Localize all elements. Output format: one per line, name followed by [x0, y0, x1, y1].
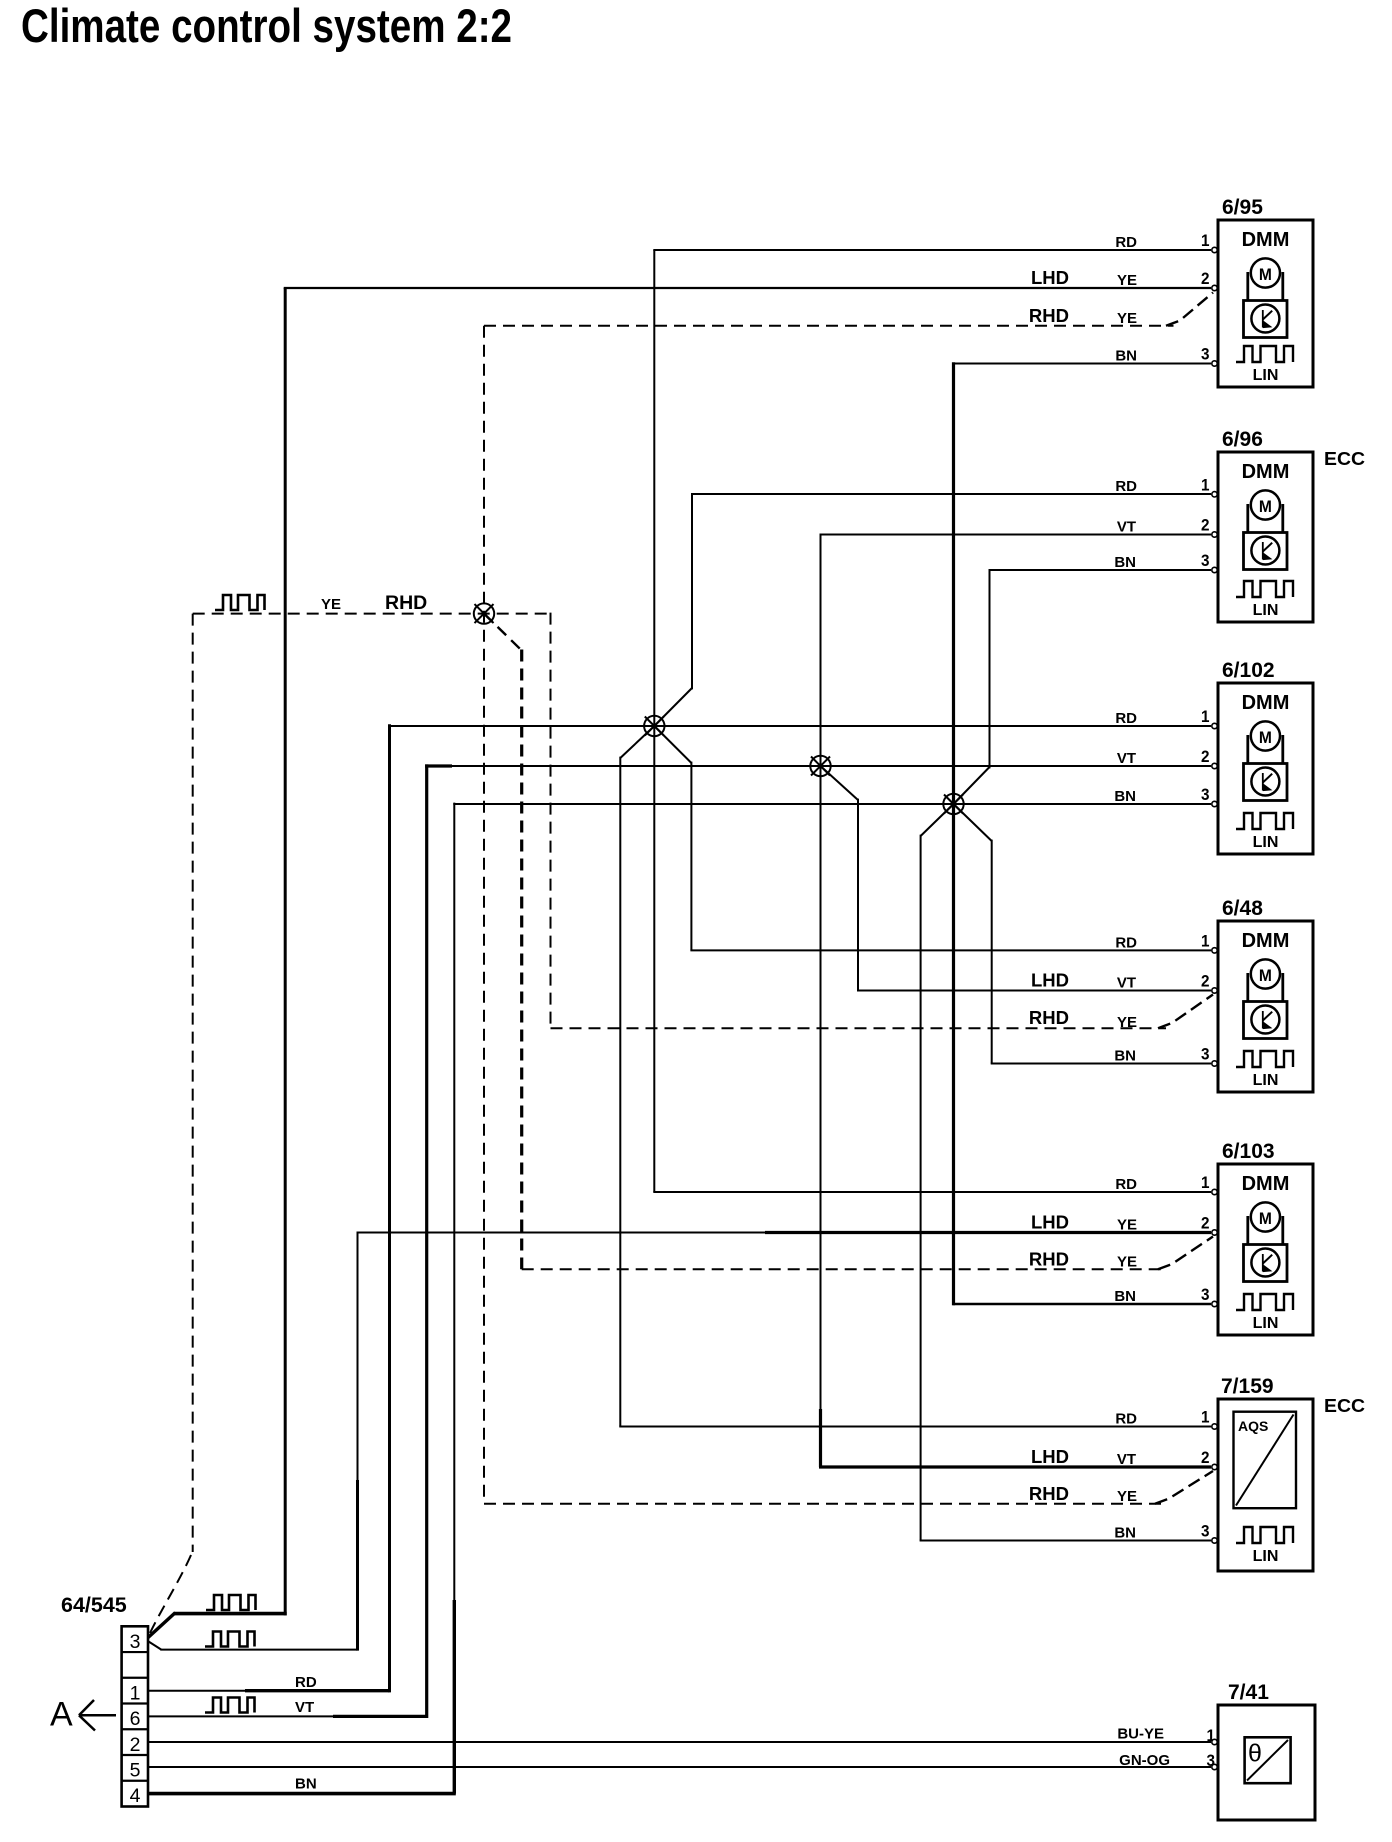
svg-text:LIN: LIN: [1253, 602, 1279, 619]
svg-text:4: 4: [130, 1785, 141, 1807]
svg-text:1: 1: [1201, 707, 1210, 726]
svg-text:1: 1: [1201, 931, 1210, 950]
6/103 motor symbol legs: [1248, 1216, 1283, 1246]
svg-text:7/159: 7/159: [1221, 1375, 1274, 1398]
svg-text:θ: θ: [1248, 1740, 1262, 1768]
wire BN vertical to 7/159: [920, 835, 922, 1541]
6/96 position sensor K circle: [1251, 537, 1279, 565]
svg-text:YE: YE: [1117, 1253, 1137, 1270]
svg-text:GN-OG: GN-OG: [1119, 1752, 1170, 1769]
wire RD vertical to 6/48: [690, 762, 692, 951]
wire BN branch diagonal to 6/96: [954, 767, 990, 804]
svg-text:YE: YE: [1117, 310, 1137, 327]
svg-text:1: 1: [130, 1682, 141, 1704]
7/159 LIN pulse symbol: [1236, 1527, 1293, 1543]
wire BN horizontal to 6/95 pin3: [953, 363, 1212, 365]
6/103 LIN pulse symbol: [1236, 1294, 1293, 1310]
svg-text:1: 1: [1201, 1408, 1210, 1427]
svg-text:BN: BN: [295, 1776, 317, 1793]
7/41 temperature sensor symbol: [1245, 1737, 1291, 1783]
svg-text:1: 1: [1201, 475, 1210, 494]
wire YE bold vertical riser x285: [284, 288, 287, 1615]
6/48 pin 3 terminal: [1212, 1061, 1217, 1066]
wire VT LHD horizontal to 6/48 pin2: [857, 990, 1211, 992]
6/48 pin 2 terminal: [1212, 988, 1217, 993]
svg-text:BN: BN: [1114, 554, 1136, 571]
wire VT 64/545 pin6 horizontal thin: [148, 1715, 334, 1717]
wire RD branch diagonal to 6/96: [654, 688, 692, 726]
wire VT vertical bold to 7/159: [819, 1409, 822, 1467]
svg-text:RD: RD: [1115, 710, 1137, 727]
svg-text:64/545: 64/545: [61, 1593, 127, 1617]
svg-text:M: M: [1259, 497, 1272, 516]
svg-text:LIN: LIN: [1253, 1548, 1279, 1565]
svg-text:M: M: [1259, 1209, 1272, 1228]
arrow A: [79, 1700, 116, 1731]
wire RD vertical bus x654: [653, 250, 655, 1192]
wire RD 64/545 pin1 horizontal bold: [245, 1689, 390, 1692]
svg-text:6/102: 6/102: [1222, 659, 1275, 682]
svg-text:2: 2: [1201, 269, 1210, 288]
7/159 pin 3 terminal: [1212, 1538, 1217, 1543]
6/95 position sensor K circle: [1251, 305, 1279, 333]
wire YE vertical riser x357 bold: [356, 1480, 359, 1651]
6/96 pin 1 terminal: [1212, 492, 1217, 497]
6/102 motor M circle: [1251, 721, 1280, 750]
svg-text:RD: RD: [1115, 934, 1137, 951]
svg-text:1: 1: [1201, 231, 1210, 250]
6/103 motor M circle: [1251, 1202, 1280, 1231]
wire RHD dashed horizontal to 6/95: [484, 325, 1174, 327]
svg-text:BN: BN: [1115, 348, 1137, 365]
wire RHD dashed branch diagonal: [484, 614, 522, 651]
6/103 pin 3 terminal: [1212, 1301, 1217, 1306]
6/48 pin 1 terminal: [1212, 948, 1217, 953]
6/96 motor M circle: [1251, 490, 1280, 519]
junction BN: [943, 794, 963, 814]
svg-text:DMM: DMM: [1242, 461, 1290, 483]
7/159 AQS sensor symbol: [1234, 1412, 1297, 1509]
svg-text:YE: YE: [1117, 1014, 1137, 1031]
wire GN-OG 64/545 pin5 to 7/41 pin3: [148, 1766, 1211, 1768]
wire VT branch diagonal to 6/48: [821, 766, 859, 800]
7/159 pin 1 terminal: [1212, 1424, 1217, 1429]
pulse symbol on VT wire: [205, 1698, 255, 1713]
svg-text:M: M: [1259, 728, 1272, 747]
junction RHD YE dashed: [474, 603, 494, 623]
svg-text:Climate control system 2:2: Climate control system 2:2: [21, 0, 512, 52]
6/95 LIN pulse symbol: [1236, 346, 1293, 362]
6/102 motor symbol legs: [1248, 735, 1283, 765]
wire YE thin stub from 64/545 pin3: [147, 1641, 161, 1650]
junction VT: [810, 756, 830, 776]
wire BN horizontal to 6/96 pin3: [989, 569, 1212, 571]
6/103 pin 1 terminal: [1212, 1189, 1217, 1194]
wire RD vertical riser x390: [388, 724, 391, 1692]
6/48 motor M circle: [1251, 959, 1280, 988]
svg-text:VT: VT: [1117, 519, 1136, 536]
wire RD horizontal to 6/96 pin1: [691, 493, 1211, 495]
svg-text:RHD: RHD: [1029, 305, 1069, 326]
6/96 motor symbol legs: [1248, 504, 1283, 534]
svg-text:ECC: ECC: [1324, 1396, 1365, 1416]
svg-text:LIN: LIN: [1253, 834, 1279, 851]
6/102 pin 1 terminal: [1212, 723, 1217, 728]
svg-text:LIN: LIN: [1253, 1072, 1279, 1089]
svg-text:3: 3: [1201, 1285, 1210, 1304]
connector 64/545 cell divider 3: [122, 1702, 148, 1704]
svg-text:BU-YE: BU-YE: [1117, 1726, 1164, 1743]
svg-text:YE: YE: [321, 596, 341, 613]
connector 64/545 body: [122, 1626, 148, 1806]
wire YE LHD horizontal bold to 6/103 pin2: [765, 1231, 1211, 1234]
wire YE bold stub from 64/545 pin3: [147, 1613, 175, 1639]
6/95 motor M circle: [1251, 258, 1280, 287]
component box 7/159: [1218, 1399, 1313, 1571]
pulse symbol on YE bold wire: [206, 1595, 256, 1610]
svg-text:RD: RD: [1115, 1411, 1137, 1428]
6/48 position sensor K circle: [1251, 1006, 1279, 1034]
svg-text:6/48: 6/48: [1222, 897, 1263, 920]
wire RD horizontal to 6/95 pin1: [653, 249, 1211, 251]
svg-text:2: 2: [1201, 516, 1210, 535]
svg-text:RHD: RHD: [1029, 1483, 1069, 1504]
wire RD horizontal to 6/102 pin1: [388, 725, 1211, 727]
svg-text:RD: RD: [1115, 1176, 1137, 1193]
svg-text:DMM: DMM: [1242, 229, 1290, 251]
7/159 pin 2 terminal: [1212, 1464, 1217, 1469]
wire RHD dashed horizontal to 6/103: [522, 1268, 1166, 1270]
svg-text:LHD: LHD: [1031, 267, 1069, 288]
svg-text:DMM: DMM: [1242, 930, 1290, 952]
svg-text:6/95: 6/95: [1222, 196, 1263, 219]
component box 6/103: [1218, 1164, 1313, 1335]
svg-text:RD: RD: [295, 1674, 317, 1691]
svg-text:2: 2: [1201, 972, 1210, 991]
svg-text:3: 3: [1201, 345, 1210, 364]
wire BU-YE 64/545 pin2 to 7/41 pin1: [148, 1741, 1211, 1743]
connector 64/545 cell divider 4: [122, 1728, 148, 1730]
wire BN horizontal to 6/48 pin3: [991, 1063, 1211, 1065]
wire RHD dashed vertical x193: [192, 614, 194, 1552]
6/96 LIN pulse symbol: [1236, 581, 1293, 597]
wire VT 64/545 pin6 horizontal bold: [333, 1715, 427, 1718]
wire BN branch diagonal to 6/48: [954, 804, 992, 841]
svg-text:5: 5: [130, 1760, 141, 1782]
6/96 pin 2 terminal: [1212, 532, 1217, 537]
svg-text:LHD: LHD: [1031, 1212, 1069, 1233]
svg-text:3: 3: [1201, 551, 1210, 570]
wire VT vertical to 6/48: [857, 799, 859, 991]
wire RD horizontal to 6/48 pin1: [690, 949, 1211, 951]
svg-text:RD: RD: [1115, 234, 1137, 251]
6/102 pin 2 terminal: [1212, 763, 1217, 768]
wire RD 64/545 pin1 horizontal thin: [148, 1690, 246, 1692]
component box 6/48: [1218, 921, 1313, 1092]
6/102 pin 3 terminal: [1212, 801, 1217, 806]
svg-text:M: M: [1259, 966, 1272, 985]
svg-text:DMM: DMM: [1242, 692, 1290, 714]
component box 7/41: [1218, 1705, 1315, 1820]
wire BN vertical riser x454 thin: [453, 803, 455, 1601]
svg-text:3: 3: [1201, 785, 1210, 804]
6/102 damper position box: [1244, 764, 1288, 801]
wire BN 64/545 pin4 horizontal bold: [148, 1792, 456, 1796]
wire RD vertical to 6/96: [691, 494, 693, 689]
wire RHD dashed horizontal to 7/159: [484, 1503, 1163, 1505]
svg-text:3: 3: [1201, 1522, 1210, 1541]
wire VT vertical riser x427: [425, 764, 428, 1718]
wire YE thin horizontal: [160, 1649, 357, 1651]
6/48 damper position box: [1244, 1002, 1288, 1039]
wire RHD dashed stub from 64/545 pin3: [150, 1551, 193, 1633]
6/102 LIN pulse symbol: [1236, 813, 1293, 829]
svg-text:VT: VT: [1117, 1451, 1136, 1468]
7/41 pin 3 terminal: [1212, 1764, 1217, 1769]
wire RHD dashed vertical x550: [550, 613, 552, 1029]
6/103 damper position box: [1244, 1245, 1288, 1282]
wire BN branch diagonal to 7/159: [921, 804, 954, 836]
svg-text:RHD: RHD: [385, 592, 427, 614]
svg-text:2: 2: [1201, 1448, 1210, 1467]
wire RHD dashed vertical x484: [483, 326, 485, 1504]
junction RD: [644, 716, 664, 736]
wire YE LHD horizontal to 6/95 pin2: [284, 287, 1211, 289]
wire BN horizontal to 7/159 pin3: [920, 1540, 1211, 1542]
wire VT horizontal to 6/102 pin2: [451, 765, 1211, 767]
6/96 pin 3 terminal: [1212, 567, 1217, 572]
svg-text:M: M: [1259, 265, 1272, 284]
wire YE bold horizontal: [174, 1612, 286, 1616]
svg-text:3: 3: [130, 1631, 141, 1653]
connector 64/545 cell divider 1: [122, 1651, 148, 1653]
wire VT LHD horizontal to 7/159 pin2: [819, 1465, 1211, 1468]
svg-text:BN: BN: [1114, 1048, 1136, 1065]
6/96 damper position box: [1244, 533, 1288, 570]
svg-text:BN: BN: [1114, 1525, 1136, 1542]
6/95 motor symbol legs: [1248, 272, 1283, 302]
wire RHD dashed diagonal at 7/159 pin2: [1155, 1471, 1213, 1504]
svg-text:BN: BN: [1114, 1288, 1136, 1305]
6/103 position sensor K circle: [1251, 1249, 1279, 1277]
svg-text:7/41: 7/41: [1228, 1681, 1269, 1704]
6/95 pin 3 terminal: [1212, 361, 1217, 366]
wire RHD dashed bold vertical x522: [520, 650, 523, 1270]
connector 64/545 cell divider 2: [122, 1677, 148, 1679]
wire YE vertical riser x357 thin: [357, 1232, 359, 1482]
wire RD vertical to 7/159: [619, 757, 621, 1427]
wire BN vertical riser x454 bold: [453, 1600, 456, 1794]
wire BN vertical bus bold x953: [952, 362, 955, 1305]
svg-text:RD: RD: [1115, 478, 1137, 495]
6/95 damper position box: [1244, 301, 1288, 338]
wire RHD dashed horizontal to 6/48: [551, 1027, 1167, 1029]
wire VT horizontal to 6/96 pin2: [820, 534, 1212, 536]
wire VT corner bold segment: [425, 764, 452, 767]
svg-text:YE: YE: [1117, 1217, 1137, 1234]
svg-text:2: 2: [130, 1734, 141, 1756]
svg-text:6: 6: [130, 1708, 141, 1730]
svg-text:VT: VT: [295, 1699, 314, 1716]
6/48 LIN pulse symbol: [1236, 1051, 1293, 1067]
wire RHD dashed diagonal at 6/103 pin2: [1158, 1237, 1213, 1270]
connector 64/545 cell divider 5: [122, 1754, 148, 1756]
svg-text:LIN: LIN: [1253, 367, 1279, 384]
svg-text:6/103: 6/103: [1222, 1140, 1275, 1163]
svg-text:BN: BN: [1114, 788, 1136, 805]
svg-text:LHD: LHD: [1031, 970, 1069, 991]
wire VT vertical bus x820: [820, 535, 822, 1411]
6/95 pin 1 terminal: [1212, 247, 1217, 252]
component box 6/102: [1218, 683, 1313, 854]
wire BN horizontal to 6/103 pin3: [953, 1303, 1212, 1305]
svg-text:VT: VT: [1117, 975, 1136, 992]
wire RD branch diagonal to 6/48: [654, 726, 691, 763]
6/95 pin 2 terminal: [1212, 285, 1217, 290]
pulse symbol on RHD dashed wire: [215, 595, 265, 610]
wire BN vertical to 6/96: [989, 570, 991, 768]
wire RD branch diagonal to 7/159: [620, 726, 654, 758]
svg-text:LIN: LIN: [1253, 1315, 1279, 1332]
wire BN vertical to 6/48: [991, 840, 993, 1064]
svg-text:1: 1: [1201, 1173, 1210, 1192]
connector 64/545 cell divider 6: [122, 1780, 148, 1782]
svg-text:2: 2: [1201, 747, 1210, 766]
wire YE LHD horizontal thin part: [357, 1232, 767, 1234]
wire RD horizontal to 6/103 pin1: [653, 1191, 1211, 1193]
svg-text:DMM: DMM: [1242, 1173, 1290, 1195]
svg-text:3: 3: [1201, 1045, 1210, 1064]
svg-text:AQS: AQS: [1238, 1418, 1268, 1434]
svg-text:VT: VT: [1117, 750, 1136, 767]
wire BN horizontal to 6/102 pin3: [453, 803, 1211, 805]
svg-text:A: A: [50, 1696, 73, 1734]
svg-text:6/96: 6/96: [1222, 428, 1263, 451]
wire RHD dashed diagonal at 6/48 pin2: [1158, 995, 1213, 1029]
7/41 pin 1 terminal: [1212, 1739, 1217, 1744]
svg-text:2: 2: [1201, 1214, 1210, 1233]
component box 6/96: [1218, 452, 1313, 622]
pulse symbol on YE thin wire: [205, 1632, 255, 1647]
svg-text:YE: YE: [1117, 272, 1137, 289]
wire RHD dashed diagonal at 6/95 pin2: [1166, 293, 1213, 326]
wire RHD dashed horizontal top: [193, 613, 551, 615]
svg-text:RHD: RHD: [1029, 1248, 1069, 1269]
wire RD horizontal to 7/159 pin1: [619, 1426, 1211, 1428]
6/103 pin 2 terminal: [1212, 1230, 1217, 1235]
svg-text:YE: YE: [1117, 1488, 1137, 1505]
6/48 motor symbol legs: [1248, 973, 1283, 1003]
svg-text:ECC: ECC: [1324, 449, 1365, 469]
6/102 position sensor K circle: [1251, 768, 1279, 796]
svg-text:LHD: LHD: [1031, 1446, 1069, 1467]
component box 6/95: [1218, 220, 1313, 387]
svg-text:RHD: RHD: [1029, 1007, 1069, 1028]
